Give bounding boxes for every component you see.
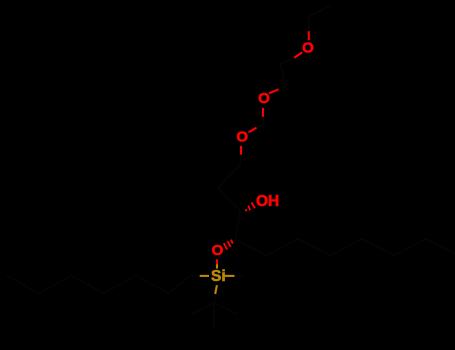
- wire left alkyl chain: [7, 276, 191, 294]
- wire C4-C4b: [218, 165, 240, 189]
- wire C4b-C5: [218, 188, 240, 211]
- wire O2-C2 red half: [269, 89, 279, 93]
- svg-text:O: O: [258, 90, 270, 107]
- wire Si-CH3 right gold half: [225, 275, 235, 277]
- wire O3-C4 red half: [240, 146, 242, 155]
- wire O1-C1 red half: [294, 52, 302, 58]
- wire CH2a-O1 dark half: [308, 17, 310, 32]
- wire C4-O3 dark half: [240, 155, 241, 165]
- wire Si-CH3 right dark half: [235, 275, 244, 277]
- wire C6-V7: [236, 239, 267, 256]
- svg-text:OH: OH: [256, 193, 279, 210]
- wire C1-O1 dark half: [281, 58, 295, 64]
- wire O3-C3 red half: [249, 128, 257, 133]
- wire O4-Si red half: [216, 259, 218, 264]
- wire C3-O3 dark half: [257, 124, 265, 128]
- wire C3-O2 dark half: [263, 117, 265, 124]
- wire Si-CtBu dark half: [213, 294, 216, 303]
- wire O2-C3 red half: [262, 108, 264, 117]
- wire Si-O4 gold half: [216, 264, 218, 268]
- wire V9-V10: [331, 239, 363, 255]
- wire tBu methyl 2: [214, 303, 236, 314]
- wire C2-O2 dark half: [279, 86, 286, 89]
- hashed wedge C5 to OH: [245, 209, 248, 211]
- wire O1-CH3 red half: [308, 31, 310, 40]
- wire CH3b-CH2a terminal ethyl: [309, 6, 331, 17]
- svg-text:O: O: [212, 242, 224, 259]
- wire V12-V13: [426, 239, 455, 254]
- wire Si-CH3 left dark half: [191, 275, 200, 277]
- hashed wedge C6 to O4: [231, 240, 233, 244]
- wire C1-C2: [281, 64, 286, 86]
- wire Si-CH3 left gold half: [200, 275, 209, 277]
- wire tBu methyl 1: [193, 303, 214, 314]
- svg-text:O: O: [236, 129, 248, 146]
- wire V11-V12: [394, 239, 426, 255]
- svg-text:O: O: [302, 40, 314, 57]
- wire Si-CtBu gold half: [215, 285, 217, 294]
- wire C5-C6: [236, 211, 241, 240]
- wire V7-V8: [267, 239, 299, 256]
- wire V8-V9: [298, 239, 331, 255]
- svg-text:Si: Si: [211, 268, 226, 285]
- wire tBu methyl 3: [213, 303, 215, 329]
- wire V10-V11: [362, 239, 394, 255]
